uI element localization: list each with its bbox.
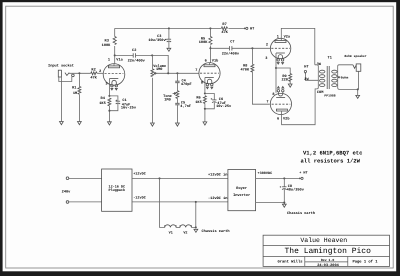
heater V2: [180, 225, 191, 236]
wire -12vDC rail: [132, 195, 228, 202]
svg-text:47K: 47K: [221, 30, 228, 35]
wire heater feed down: [160, 178, 165, 227]
resistor R1 1M: [72, 74, 81, 121]
svg-text:-12vDC: -12vDC: [133, 195, 146, 200]
svg-text:Inverter: Inverter: [233, 193, 250, 198]
node (V1b plate / C7): [209, 47, 211, 49]
svg-text:Value Heaven: Value Heaven: [300, 237, 347, 244]
wire +12vDC rail: [132, 172, 228, 179]
ground (speaker): [356, 95, 360, 98]
tap arrow 8ohm: [338, 75, 349, 79]
wire jack tip to grid: [69, 72, 104, 74]
wire between heaters: [176, 226, 180, 228]
svg-text:V1b: V1b: [212, 58, 218, 63]
node (R5 top on rail): [209, 27, 211, 29]
wire wiper to V1b grid: [156, 72, 200, 74]
wire input jack sleeve to ground: [60, 77, 62, 122]
svg-text:8: 8: [272, 92, 274, 97]
svg-text:V1: V1: [169, 230, 173, 235]
wire V2a plate to transformer: [281, 28, 315, 64]
node (cathode R4/C1 top): [108, 95, 110, 97]
node (V1b cathode bottom): [204, 108, 206, 110]
svg-text:V1a: V1a: [116, 57, 123, 62]
wire V2a cathode down: [275, 53, 277, 93]
svg-text:PP1988: PP1988: [324, 93, 335, 97]
node (C3 top on rail): [168, 27, 170, 29]
capacitor C8 48u/350v: [280, 178, 305, 202]
svg-text:Plugpack: Plugpack: [109, 188, 126, 193]
node (V1b cathode top): [204, 92, 206, 94]
svg-text:22n/400v: 22n/400v: [128, 58, 146, 63]
triode V1b: [195, 58, 220, 89]
resistor R7 47K: [221, 22, 245, 35]
chassis earth (heater): [194, 229, 230, 234]
node (heater feed): [158, 177, 160, 179]
svg-text:3: 3: [265, 56, 267, 61]
resistor R3 100K: [102, 28, 117, 63]
svg-text:COM: COM: [317, 90, 323, 95]
svg-text:R1: R1: [72, 86, 76, 91]
wire cathode node to C6: [205, 94, 214, 100]
svg-text:1K5: 1K5: [99, 101, 105, 106]
svg-text:6: 6: [277, 116, 279, 121]
svg-text:8ohm: 8ohm: [341, 75, 349, 79]
node (heater return): [195, 201, 197, 203]
speaker LS1: [344, 54, 366, 95]
wire 240v to plugpack: [69, 178, 102, 202]
transformer T1: [304, 55, 337, 97]
capacitor C1 47uF: [109, 98, 136, 111]
resistor R4 1K5: [99, 96, 111, 122]
svg-text:+: +: [165, 38, 167, 42]
terminal 240v input: [62, 177, 71, 203]
node (speaker return): [357, 88, 359, 90]
potentiometer Volume 1M0: [151, 55, 166, 123]
svg-text:+12vDC: +12vDC: [133, 172, 146, 177]
svg-text:all resistors 1/2W: all resistors 1/2W: [301, 157, 361, 164]
node (shared cathode): [275, 67, 277, 69]
svg-text:R3: R3: [105, 39, 109, 44]
wire cathode node to R9: [276, 68, 290, 74]
svg-text:470pF: 470pF: [181, 82, 192, 87]
svg-text:6: 6: [205, 58, 207, 63]
node (heater earth): [195, 226, 197, 228]
svg-text:Input socket: Input socket: [48, 64, 74, 69]
svg-text:T1: T1: [328, 55, 332, 60]
svg-text:4,7nF: 4,7nF: [180, 104, 191, 109]
ground (input jack): [60, 122, 64, 125]
svg-text:100K: 100K: [102, 43, 111, 48]
svg-text:Royer: Royer: [236, 186, 247, 191]
svg-text:48u/350v: 48u/350v: [287, 188, 305, 193]
svg-text:240v: 240v: [62, 189, 71, 194]
node (R1 top): [78, 72, 80, 74]
input socket J1: [48, 64, 74, 82]
triode V1a: [99, 57, 125, 90]
ground (R9): [288, 84, 292, 87]
svg-text:100K: 100K: [199, 40, 208, 45]
capacitor C3 10u/350v: [148, 28, 171, 47]
capacitor C6 47uF: [205, 97, 232, 109]
capacitor C4 470pF: [175, 73, 191, 90]
capacitor C2 22n/400v: [115, 48, 153, 63]
wire heater return: [191, 202, 195, 228]
svg-text:16v-25v: 16v-25v: [121, 106, 137, 111]
ground (R4/C1): [108, 122, 112, 125]
svg-text:+12vDC in: +12vDC in: [208, 172, 227, 177]
svg-text:10u/350v: 10u/350v: [148, 38, 166, 43]
svg-text:7: 7: [195, 68, 197, 73]
resistor R8 470K: [240, 48, 269, 104]
svg-text:2: 2: [266, 43, 268, 48]
resistor R5 100K: [199, 28, 212, 62]
resistor R9 220: [281, 74, 291, 85]
svg-text:1M: 1M: [73, 91, 77, 96]
title block: [263, 235, 389, 268]
svg-text:R6: R6: [196, 96, 200, 101]
node (C4 top): [176, 72, 178, 74]
svg-text:Rev 1.0: Rev 1.0: [321, 258, 334, 262]
svg-text:1: 1: [108, 57, 110, 62]
svg-text:V1,2 6N1P,6BQ7 etc: V1,2 6N1P,6BQ7 etc: [303, 149, 362, 156]
svg-text:1M0: 1M0: [156, 67, 162, 72]
svg-text:2: 2: [99, 69, 101, 74]
resistor R2 47K: [90, 67, 97, 80]
svg-text:47K: 47K: [90, 76, 97, 81]
svg-text:3: 3: [105, 82, 107, 87]
node (tap junction): [167, 72, 169, 74]
potentiometer Tone 1M0: [163, 91, 179, 103]
capacitor C7 22n/400v: [210, 40, 270, 57]
power supply plugpack box: [102, 169, 132, 211]
svg-text:16v-25v: 16v-25v: [216, 104, 232, 109]
svg-text:+: +: [115, 98, 117, 102]
inverter box (Royer): [228, 170, 256, 211]
resistor R6 1K5: [195, 96, 206, 122]
chassis earth (C8): [282, 203, 315, 217]
svg-text:+: +: [280, 185, 282, 189]
svg-text:The Lamington Pico: The Lamington Pico: [284, 247, 371, 256]
svg-text:V2: V2: [183, 230, 187, 235]
note text: [301, 149, 363, 164]
svg-text:Chassis earth: Chassis earth: [202, 229, 230, 234]
svg-text:C2: C2: [132, 48, 136, 53]
ground (R6/C6): [203, 122, 207, 125]
node (C8 top): [283, 177, 285, 179]
wire V1b cathode down: [204, 78, 206, 94]
svg-text:470K: 470K: [240, 68, 249, 73]
triode V2b (inverted): [266, 87, 291, 122]
node (cathode RC bottom): [108, 110, 110, 112]
wire cathode node to C1: [109, 96, 118, 101]
node (C8 earth): [283, 201, 285, 203]
wire V2b plate to transformer COM: [282, 89, 317, 125]
chassis earth (C3): [167, 47, 171, 51]
wire royer bottom return: [256, 202, 285, 204]
svg-text:Grant Wills: Grant Wills: [277, 259, 303, 264]
node (V1a plate / C2): [114, 54, 116, 56]
svg-text:V2b: V2b: [283, 116, 289, 121]
B+ rail wire: [115, 27, 222, 29]
secondary top wire to speaker: [338, 65, 353, 88]
terminal HT (top): [244, 26, 255, 31]
svg-text:8ohm speaker: 8ohm speaker: [344, 54, 366, 58]
svg-text:220: 220: [281, 78, 287, 83]
svg-text:+300VDC: +300VDC: [258, 171, 273, 176]
svg-text:24-03-2004: 24-03-2004: [317, 263, 339, 268]
secondary bottom wire: [338, 88, 358, 90]
wire +300VDC: [256, 171, 300, 178]
triode V2a: [265, 35, 291, 65]
ground (R1): [78, 122, 82, 125]
svg-text:1K5: 1K5: [195, 100, 201, 105]
svg-text:8: 8: [201, 80, 203, 85]
svg-text:C7: C7: [230, 40, 234, 45]
capacitor C5 4.7nF: [175, 98, 191, 123]
wire V1a cathode down: [108, 79, 110, 96]
svg-text:22n/400v: 22n/400v: [222, 51, 240, 56]
svg-text:-12vDC in: -12vDC in: [208, 196, 227, 201]
ground (tone/C5): [176, 123, 180, 126]
svg-text:Chassis earth: Chassis earth: [287, 211, 315, 216]
svg-text:7: 7: [266, 99, 268, 104]
wire volume top over to grid line: [152, 55, 168, 73]
ground (volume): [151, 123, 155, 126]
heater V1: [165, 225, 176, 236]
node (volume top): [151, 54, 153, 56]
svg-text:Page 1 of 1: Page 1 of 1: [352, 259, 378, 264]
terminal HT (supply): [299, 170, 307, 179]
svg-text:1M0: 1M0: [164, 97, 170, 102]
svg-text:+ HT: + HT: [299, 170, 307, 175]
node (R8 top): [251, 47, 253, 49]
